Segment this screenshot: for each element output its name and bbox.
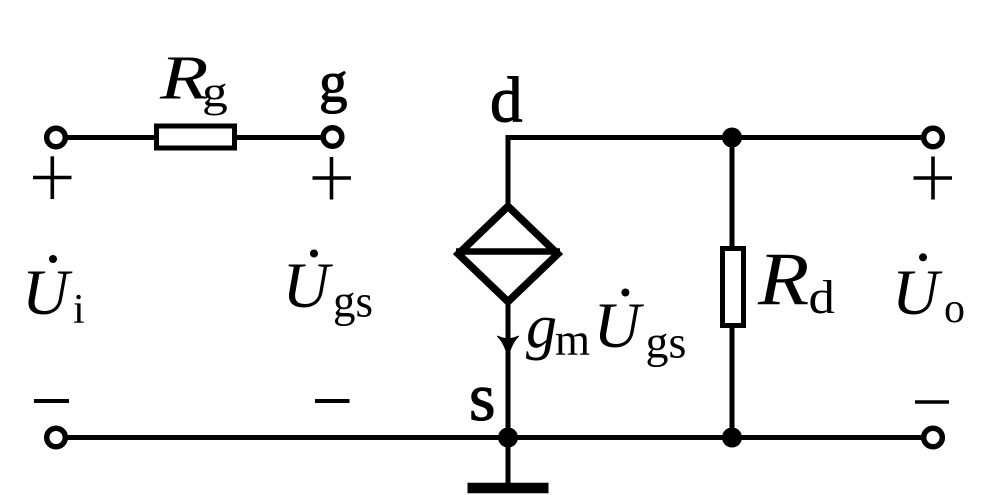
svg-text:g: g <box>319 51 348 114</box>
wire source branch (current source to s node) <box>506 300 511 438</box>
wire bottom rail <box>56 435 933 440</box>
svg-text:d: d <box>809 270 835 323</box>
svg-text:U: U <box>594 290 645 362</box>
label Rd <box>757 238 835 323</box>
junction dot top (d rail / Rd) <box>722 128 742 148</box>
svg-text:s: s <box>469 359 495 435</box>
plus sign output <box>914 157 953 200</box>
label Uo <box>892 253 965 332</box>
label Ui <box>22 255 85 333</box>
terminal node g (open circle) <box>323 128 342 147</box>
svg-text:i: i <box>73 287 85 333</box>
label gm Ugs <box>526 289 686 368</box>
resistor Rd <box>723 249 744 326</box>
terminal output + (open circle) <box>924 128 943 147</box>
resistor Rg <box>157 126 235 148</box>
junction dot bottom (Rd / bottom rail) <box>722 428 742 448</box>
wire input top lead left <box>56 135 154 140</box>
minus sign input <box>34 399 69 403</box>
svg-text:U: U <box>22 257 73 329</box>
junction dot s node <box>498 428 518 448</box>
svg-text:gs: gs <box>646 317 687 368</box>
svg-text:g: g <box>526 293 557 361</box>
minus sign output <box>915 400 949 404</box>
wire Rd lower <box>730 326 735 438</box>
wire top rail d to output <box>506 138 511 206</box>
plus sign node g <box>313 157 352 200</box>
svg-text:o: o <box>944 286 965 332</box>
wire Rd upper <box>730 138 735 249</box>
svg-text:R: R <box>757 238 809 321</box>
dependent current source G1 diamond <box>456 206 560 301</box>
terminal output - (open circle) <box>924 428 943 447</box>
minus sign node g <box>315 399 350 403</box>
svg-text:d: d <box>490 65 523 137</box>
label Ugs <box>283 250 374 327</box>
terminal input + (open circle) <box>47 128 66 147</box>
plus sign input <box>33 156 72 199</box>
ground <box>468 438 549 489</box>
svg-text:m: m <box>555 315 590 365</box>
wire input top lead right <box>237 135 333 140</box>
svg-text:U: U <box>892 257 943 329</box>
arrow of controlled current gmUgs <box>497 336 518 358</box>
label Rg <box>159 45 228 116</box>
terminal input - (open circle) <box>47 428 66 447</box>
svg-text:U: U <box>283 250 334 322</box>
svg-text:g: g <box>202 69 228 116</box>
svg-text:gs: gs <box>333 277 373 327</box>
